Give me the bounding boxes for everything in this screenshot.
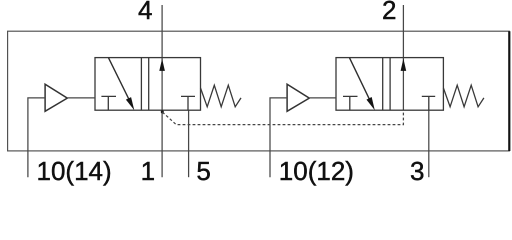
- valve V2 body: [336, 58, 443, 111]
- svg-text:5: 5: [196, 156, 210, 186]
- V1 flow path diagonal (left square): [109, 58, 131, 102]
- V1 pilot amplifier triangle: [45, 84, 67, 111]
- V2 up-flow arrowhead (right square): [401, 59, 407, 71]
- wire pilot 10(14): [28, 98, 45, 177]
- V1 blocked port T (right square): [181, 96, 195, 110]
- frame right edge: [508, 31, 510, 151]
- junction dot: [161, 110, 164, 113]
- wire port 2 vertical: [402, 5, 404, 110]
- pilot signal dashed line V1 to V2: [162, 111, 403, 125]
- V2 divider left line: [382, 58, 384, 111]
- V1 up-flow arrowhead (right square): [159, 59, 165, 71]
- V1 diagonal arrowhead: [126, 97, 134, 110]
- V2 return spring: [443, 85, 484, 107]
- valve V1 body: [95, 58, 201, 111]
- wire V2 triangle to valve: [310, 97, 336, 99]
- wire V1 triangle to valve: [68, 97, 95, 99]
- V2 blocked port T (left square): [343, 96, 358, 110]
- V2 flow path diagonal (left square): [350, 58, 371, 102]
- svg-text:4: 4: [138, 0, 152, 25]
- V1 blocked port T (left square): [101, 96, 116, 110]
- wire pilot 10(12): [270, 98, 287, 177]
- svg-text:1: 1: [141, 156, 155, 186]
- wire port 4 / port 1 vertical: [161, 5, 163, 177]
- wire port 5 vertical: [188, 110, 190, 177]
- V2 blocked port T (right square): [422, 96, 435, 110]
- svg-text:3: 3: [410, 156, 424, 186]
- V1 divider right line: [148, 58, 150, 111]
- svg-text:10(12): 10(12): [279, 156, 354, 186]
- V2 diagonal arrowhead: [366, 97, 374, 110]
- frame border: [8, 31, 510, 151]
- svg-text:10(14): 10(14): [37, 156, 112, 186]
- V1 return spring: [201, 85, 242, 107]
- V2 divider right line: [389, 58, 391, 111]
- wire port 3 vertical: [428, 110, 430, 177]
- svg-text:2: 2: [382, 0, 396, 25]
- V1 divider left line: [140, 58, 142, 111]
- V2 pilot amplifier triangle: [287, 84, 309, 111]
